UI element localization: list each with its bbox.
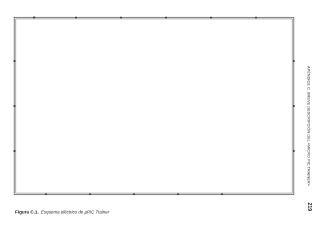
frame zone ticks top	[33, 17, 257, 19]
frame zone ticks right	[293, 60, 295, 152]
frame inner border	[16, 19, 292, 193]
frame outer border	[14, 17, 294, 194]
svg-text:219: 219	[306, 203, 312, 212]
frame zone ticks bottom	[45, 194, 223, 195]
frame zone ticks left	[14, 60, 16, 152]
svg-text:APÉNDICE C. BREVE DESCRIPCIÓN: APÉNDICE C. BREVE DESCRIPCIÓN DEL «MICRO…	[307, 66, 312, 186]
svg-text:Esquema eléctrico de µPIC Trai: Esquema eléctrico de µPIC Trainer	[41, 210, 110, 215]
svg-text:Figura C.1.: Figura C.1.	[15, 210, 39, 215]
